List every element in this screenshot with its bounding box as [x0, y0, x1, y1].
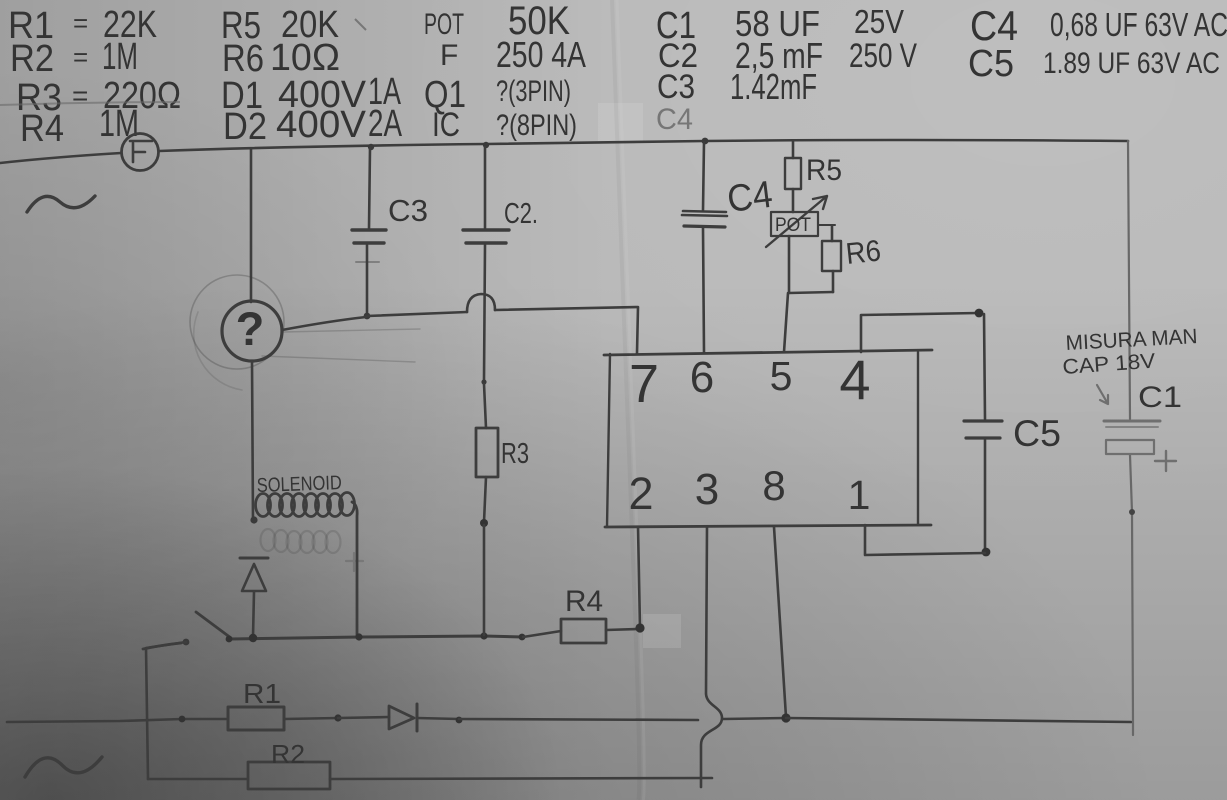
wire IC pin1 bracket	[865, 525, 985, 555]
node	[226, 636, 233, 643]
wire bottom rail (R1/D1)	[7, 719, 228, 722]
svg-text:25V: 25V	[854, 3, 904, 40]
node	[519, 634, 526, 641]
resistor R1	[228, 707, 284, 730]
resistor R4	[523, 631, 561, 637]
wire switch rail	[230, 636, 523, 639]
wire diode to rail	[253, 592, 254, 637]
wire rail mid segment	[459, 719, 698, 720]
svg-text:IC: IC	[432, 106, 460, 144]
PARTS LIST	[0, 0, 1227, 150]
svg-text:10Ω: 10Ω	[270, 37, 340, 79]
wire right long vertical	[1128, 141, 1130, 419]
wire top rail main	[159, 140, 1128, 151]
IC pin numbers bottom: 2 3 8 1	[628, 462, 870, 519]
node	[179, 716, 186, 723]
node below R3	[480, 519, 488, 527]
wire solenoid right down	[352, 502, 357, 637]
svg-text:6: 6	[690, 353, 714, 402]
svg-text:D2: D2	[223, 106, 267, 148]
wire R2 rail	[148, 778, 248, 781]
wire left vertical to Q1	[250, 149, 253, 302]
svg-text:C5: C5	[968, 43, 1014, 85]
wire to D1	[338, 717, 389, 718]
wire pot bottom bracket	[789, 236, 833, 293]
stray pencil tick	[355, 19, 366, 30]
svg-text:R3: R3	[501, 438, 529, 470]
wire IC pin3 down with hop over rail	[701, 527, 722, 787]
resistor R3	[476, 428, 498, 477]
transistor Q1 (unknown, ?)	[222, 301, 282, 361]
wire rail right of hop	[723, 718, 786, 719]
svg-text:SOLENOID: SOLENOID	[256, 472, 342, 497]
wire IC pin2 to R4	[638, 527, 640, 628]
svg-text:2: 2	[628, 468, 653, 519]
switch SW1	[143, 643, 181, 649]
node	[249, 634, 257, 642]
svg-text:C1: C1	[1138, 381, 1182, 414]
wire Q1 emitter down	[252, 361, 253, 521]
ghost diode mark	[346, 553, 363, 571]
svg-text:C4: C4	[656, 103, 693, 136]
svg-text:R5: R5	[806, 154, 842, 187]
paper fold crease	[617, 0, 644, 800]
svg-text:POT: POT	[424, 8, 464, 41]
node R4 / pin2 junction	[635, 623, 644, 632]
svg-text:?: ?	[236, 302, 265, 355]
node C3 bottom	[364, 313, 371, 320]
svg-text:250 4A: 250 4A	[496, 34, 586, 75]
wire rail to right vertical	[786, 718, 1131, 722]
capacitor C5	[984, 314, 985, 419]
svg-text:400V: 400V	[276, 104, 367, 146]
svg-text:R2: R2	[10, 38, 54, 80]
svg-text:250 V: 250 V	[849, 37, 917, 75]
wire IC pin8 down	[774, 527, 786, 717]
svg-text:1M: 1M	[99, 103, 139, 145]
node	[480, 632, 487, 639]
svg-text:C4: C4	[725, 174, 775, 221]
svg-text:1: 1	[848, 472, 871, 518]
capacitor C4	[702, 138, 709, 145]
AC source tilde bottom	[25, 757, 102, 777]
wire R2 rail right	[330, 778, 712, 779]
wire Q1 base to IC pin7 with hop over C2	[282, 317, 366, 330]
svg-text:4: 4	[839, 348, 870, 411]
svg-text:1.42mF: 1.42mF	[730, 66, 817, 107]
svg-text:R4: R4	[20, 108, 64, 150]
svg-text:C2.: C2.	[504, 198, 538, 230]
wire left bottom vertical	[146, 642, 186, 779]
note MISURA MAN CAP 18V	[1062, 325, 1198, 414]
svg-text:R6: R6	[222, 38, 264, 80]
ghost solenoid erased	[261, 529, 341, 553]
AC source tilde top	[27, 196, 95, 212]
svg-text:8: 8	[762, 462, 785, 509]
svg-text:R4: R4	[565, 585, 603, 618]
svg-text:C3: C3	[388, 193, 428, 228]
node	[355, 633, 362, 640]
capacitor C1 sketch	[1097, 385, 1176, 471]
ghost circle around Q1	[190, 275, 284, 369]
svg-text:=: =	[73, 8, 88, 38]
svg-text:C5: C5	[1013, 413, 1061, 454]
capacitor C2	[483, 142, 489, 148]
svg-text:R2: R2	[271, 739, 305, 769]
svg-text:?(8PIN): ?(8PIN)	[496, 109, 577, 142]
wire IC pin4 bracket to C5 top	[861, 313, 978, 352]
resistor R2	[248, 762, 330, 789]
stray underline stroke	[0, 102, 180, 105]
svg-text:F: F	[440, 39, 458, 72]
fuse F1	[122, 134, 159, 171]
svg-text:=: =	[72, 80, 88, 111]
node	[456, 717, 463, 724]
solenoid L1	[256, 493, 355, 517]
svg-text:5: 5	[770, 353, 793, 399]
svg-text:1.89 UF 63V AC: 1.89 UF 63V AC	[1043, 47, 1220, 80]
svg-text:POT: POT	[775, 215, 811, 236]
diode D2 flyback	[240, 557, 268, 560]
svg-text:0,68 UF 63V AC: 0,68 UF 63V AC	[1050, 6, 1227, 43]
svg-text:1M: 1M	[102, 36, 138, 78]
eraser patch	[643, 614, 681, 648]
wire top rail left segment	[0, 153, 121, 163]
svg-text:=: =	[73, 42, 88, 72]
node solenoid top	[250, 516, 257, 523]
potentiometer POT	[771, 212, 818, 236]
svg-text:2A: 2A	[368, 103, 402, 145]
resistor R6	[831, 226, 834, 241]
svg-text:3: 3	[695, 465, 719, 514]
diode D1	[389, 706, 414, 729]
svg-text:7: 7	[629, 354, 659, 414]
svg-text:?(3PIN): ?(3PIN)	[496, 75, 571, 108]
svg-text:R6: R6	[844, 234, 882, 270]
node	[334, 714, 341, 721]
svg-text:C4: C4	[970, 2, 1018, 49]
IC U1 box	[604, 350, 932, 355]
svg-text:R1: R1	[243, 678, 281, 709]
node on right vertical	[1129, 509, 1135, 515]
IC pin numbers top: 7 6 5 4	[629, 348, 871, 414]
node pin8 rail	[781, 713, 790, 722]
svg-text:C3: C3	[657, 68, 695, 106]
capacitor C3	[368, 144, 374, 150]
resistor R5	[792, 141, 795, 158]
